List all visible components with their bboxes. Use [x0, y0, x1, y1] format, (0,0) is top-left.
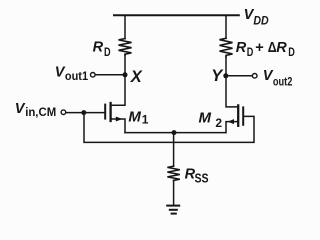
- svg-text:in,CM: in,CM: [25, 105, 56, 119]
- svg-text:M: M: [128, 108, 141, 125]
- svg-text:D: D: [104, 45, 111, 59]
- transistor M1 source wire with arrow: [111, 119, 125, 133]
- wire VDD top rail: [114, 14, 239, 16]
- svg-text:D: D: [288, 45, 295, 59]
- svg-text:X: X: [130, 68, 143, 86]
- svg-text:Y: Y: [211, 67, 224, 85]
- svg-text:out2: out2: [273, 74, 293, 88]
- terminal Vin,CM (open circle): [61, 110, 66, 115]
- wire node X to Vout1 terminal: [96, 74, 125, 76]
- terminal Vout2 (open circle): [252, 74, 257, 79]
- node Y: [223, 73, 228, 78]
- transistor M2 channel bar: [237, 105, 239, 125]
- svg-text:+: +: [255, 40, 263, 56]
- svg-text:V: V: [15, 101, 26, 117]
- ground symbol: [167, 205, 179, 207]
- svg-text:Δ: Δ: [268, 40, 277, 56]
- wire gate bias: down from junction, across bottom, up to M2 gate: [84, 113, 254, 143]
- wire right VDD drop: [225, 15, 227, 38]
- wire Vin,CM terminal to M1 gate: [65, 112, 104, 114]
- svg-text:R: R: [236, 40, 247, 56]
- transistor M1 source arrow: [116, 117, 123, 122]
- svg-text:out1: out1: [65, 69, 88, 83]
- wire tail node down to RSS: [173, 133, 175, 167]
- svg-text:DD: DD: [253, 14, 269, 28]
- wire tail: M1 source to M2 source: [125, 132, 226, 134]
- transistor M2 drain wire: [226, 76, 238, 107]
- transistor M1 gate bar: [104, 105, 106, 119]
- transistor M2 source wire with arrow: [226, 122, 238, 133]
- wire RD bottom to node X and down to M1 drain corner: [111, 55, 125, 105]
- transistor M1 channel bar: [109, 103, 111, 121]
- svg-text:M: M: [199, 110, 212, 127]
- resistor RD (left): [119, 39, 132, 55]
- wire resistor to node Y: [225, 57, 227, 76]
- node gate junction: [81, 110, 86, 115]
- wire RSS to ground: [173, 180, 175, 204]
- terminal Vout1 (open circle): [91, 73, 96, 78]
- transistor M2 gate bar: [242, 107, 244, 124]
- svg-text:D: D: [247, 45, 254, 59]
- wire node Y to Vout2 terminal: [226, 75, 252, 77]
- resistor RD+dRD (right): [220, 38, 233, 57]
- transistor M2 source arrow: [228, 119, 235, 124]
- svg-text:R: R: [276, 40, 287, 56]
- node X: [123, 72, 128, 77]
- wire left VDD drop: [124, 15, 126, 38]
- svg-text:2: 2: [215, 116, 222, 130]
- resistor RSS: [167, 166, 179, 180]
- svg-text:1: 1: [142, 112, 149, 126]
- svg-text:SS: SS: [195, 172, 209, 186]
- svg-text:R: R: [93, 39, 104, 55]
- node tail junction: [172, 130, 177, 135]
